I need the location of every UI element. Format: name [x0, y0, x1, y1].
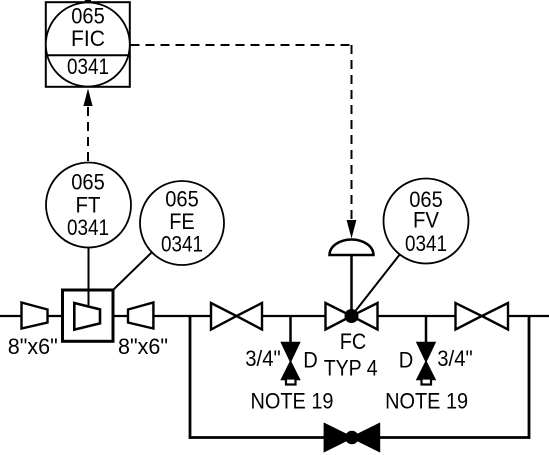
svg-text:FE: FE — [169, 209, 195, 234]
svg-text:FIC: FIC — [71, 26, 105, 51]
svg-text:TYP 4: TYP 4 — [324, 356, 378, 381]
svg-text:D: D — [399, 348, 414, 373]
svg-text:3/4": 3/4" — [437, 346, 473, 371]
svg-text:065: 065 — [71, 4, 105, 29]
svg-text:0341: 0341 — [67, 215, 109, 240]
svg-text:8"x6": 8"x6" — [8, 334, 58, 359]
svg-text:0341: 0341 — [161, 232, 203, 257]
svg-text:NOTE 19: NOTE 19 — [385, 389, 468, 414]
svg-text:0341: 0341 — [405, 231, 447, 256]
svg-text:3/4": 3/4" — [245, 346, 281, 371]
svg-text:FV: FV — [413, 207, 439, 232]
svg-text:FC: FC — [340, 329, 367, 354]
svg-text:FT: FT — [76, 192, 101, 217]
svg-text:NOTE 19: NOTE 19 — [251, 389, 334, 414]
svg-text:D: D — [303, 348, 318, 373]
svg-text:8"x6": 8"x6" — [118, 334, 168, 359]
svg-text:065: 065 — [71, 170, 105, 195]
svg-text:0341: 0341 — [67, 54, 109, 79]
svg-text:065: 065 — [165, 187, 199, 212]
